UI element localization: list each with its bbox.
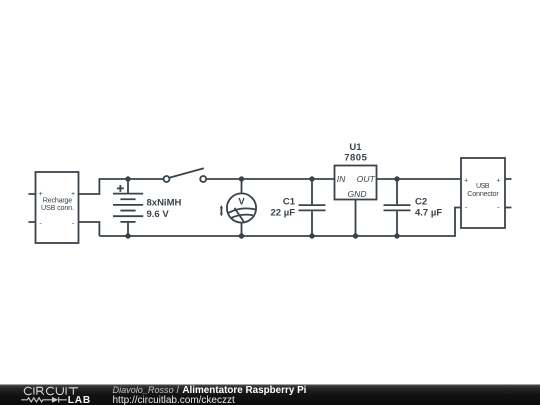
svg-text:8xNiMH: 8xNiMH [147, 198, 182, 209]
svg-text:http://circuitlab.com/ckeczzt: http://circuitlab.com/ckeczzt [113, 395, 235, 405]
svg-text:22 µF: 22 µF [271, 208, 296, 219]
svg-text:+: + [496, 177, 500, 184]
svg-text:GND: GND [347, 189, 366, 199]
svg-text:Diavolo_Rosso: Diavolo_Rosso [113, 385, 174, 395]
svg-text:USB conn.: USB conn. [41, 203, 74, 212]
svg-text:LAB: LAB [68, 395, 91, 405]
svg-text:+: + [464, 177, 468, 184]
svg-text:9.6 V: 9.6 V [147, 209, 170, 220]
svg-text:7805: 7805 [344, 153, 367, 164]
svg-text:IN: IN [337, 174, 346, 184]
svg-text:4.7 µF: 4.7 µF [415, 208, 442, 219]
svg-text:U1: U1 [349, 142, 362, 153]
svg-text:C2: C2 [415, 196, 427, 207]
svg-text:+: + [71, 191, 75, 198]
svg-text:+: + [39, 191, 43, 198]
svg-text:Connector: Connector [467, 189, 499, 198]
svg-text:V: V [238, 197, 245, 208]
svg-text:C1: C1 [283, 196, 296, 207]
svg-text:OUT: OUT [357, 174, 376, 184]
